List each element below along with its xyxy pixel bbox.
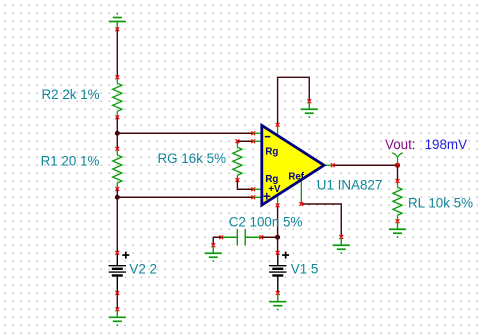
pin mark amp rg2 xyxy=(251,187,255,191)
pin mark xyxy=(236,178,240,182)
svg-text:RL 10k 5%: RL 10k 5% xyxy=(408,196,473,211)
pin mark top ground xyxy=(115,27,119,31)
resistor R2 xyxy=(113,77,122,117)
amp minus symbol xyxy=(265,136,271,138)
wire top supply to ground xyxy=(278,77,310,125)
pin mark bottom supply xyxy=(276,203,280,207)
ground (top right) xyxy=(301,101,318,118)
pin mark xyxy=(115,147,119,151)
wire C2 right to node xyxy=(261,236,277,238)
ground (C2) xyxy=(205,245,222,262)
ground (below V1) xyxy=(269,293,286,310)
node IN+ junction xyxy=(115,195,120,200)
pin mark xyxy=(259,235,263,239)
svg-text:+V: +V xyxy=(268,184,281,195)
wire to amp minus input xyxy=(117,132,253,134)
wire xyxy=(116,293,118,309)
pin mark xyxy=(276,251,280,255)
svg-text:U1 INA827: U1 INA827 xyxy=(317,178,383,193)
ground (below V2) xyxy=(109,309,126,326)
pin mark xyxy=(115,251,119,255)
wire output to RL xyxy=(397,165,399,181)
wire C2 left to ground xyxy=(213,237,221,245)
amp input pin stubs xyxy=(253,133,261,197)
battery V1 xyxy=(269,253,286,293)
plus sign V1 xyxy=(282,252,289,259)
node V- junction C2/V1 xyxy=(275,235,280,240)
svg-text:R2 2k 1%: R2 2k 1% xyxy=(42,87,100,102)
amp output pin stub xyxy=(323,164,333,166)
capacitor C2 xyxy=(221,229,261,245)
pin mark xyxy=(396,179,400,183)
pin mark xyxy=(115,115,119,119)
svg-text:Vout:: Vout: xyxy=(385,137,416,152)
pin mark amp rg1 xyxy=(251,139,255,143)
pin mark xyxy=(115,307,119,311)
wire xyxy=(116,29,118,77)
pin mark top supply xyxy=(276,123,280,127)
pin mark xyxy=(307,99,311,103)
svg-text:R1 20 1%: R1 20 1% xyxy=(41,154,100,169)
wire RG bottom to amp xyxy=(237,180,253,189)
ground (ref) xyxy=(333,237,350,254)
pin mark xyxy=(115,75,119,79)
pin mark xyxy=(339,235,343,239)
amp plus symbol xyxy=(263,193,270,200)
pin mark xyxy=(219,235,223,239)
svg-text:Ref: Ref xyxy=(288,171,304,182)
wire to amp plus input xyxy=(117,196,253,198)
wire amp output xyxy=(333,164,398,166)
pin mark xyxy=(236,139,240,143)
wire xyxy=(116,189,118,253)
battery V2 xyxy=(109,253,126,293)
resistor RL xyxy=(393,181,402,221)
voltage probe Vout xyxy=(392,153,403,164)
pin mark amp minus xyxy=(251,131,255,135)
ground (RL) xyxy=(389,221,406,238)
pin mark ref xyxy=(299,202,303,206)
pin mark output xyxy=(331,163,335,167)
op-amp U1 triangle xyxy=(262,125,324,205)
svg-text:RG 16k 5%: RG 16k 5% xyxy=(158,151,227,166)
svg-text:C2 100n 5%: C2 100n 5% xyxy=(229,215,303,230)
pin mark xyxy=(276,291,280,295)
svg-text:198mV: 198mV xyxy=(425,137,467,152)
pin mark amp plus xyxy=(251,195,255,199)
pin mark xyxy=(211,243,215,247)
pin mark xyxy=(396,219,400,223)
wire ref to ground xyxy=(301,204,341,237)
ground (top, flipped up) xyxy=(109,13,126,30)
pin mark probe xyxy=(396,163,400,167)
resistor RG xyxy=(233,141,242,180)
amp bottom supply pin stub xyxy=(277,194,279,205)
node IN- junction xyxy=(115,131,120,136)
svg-text:V2 2: V2 2 xyxy=(129,262,157,277)
resistor R1 xyxy=(113,149,122,189)
svg-text:Rg: Rg xyxy=(265,146,278,157)
wire bottom supply to node xyxy=(277,205,279,253)
node VOUT junction xyxy=(395,163,400,168)
wire RG top to amp xyxy=(237,140,253,142)
pin mark xyxy=(115,187,119,191)
pin mark xyxy=(115,291,119,295)
wire xyxy=(116,117,118,149)
amp ref pin stub xyxy=(300,180,302,205)
plus sign V2 xyxy=(122,252,129,259)
svg-text:V1 5: V1 5 xyxy=(291,262,319,277)
amp top supply pin stub xyxy=(277,125,279,137)
